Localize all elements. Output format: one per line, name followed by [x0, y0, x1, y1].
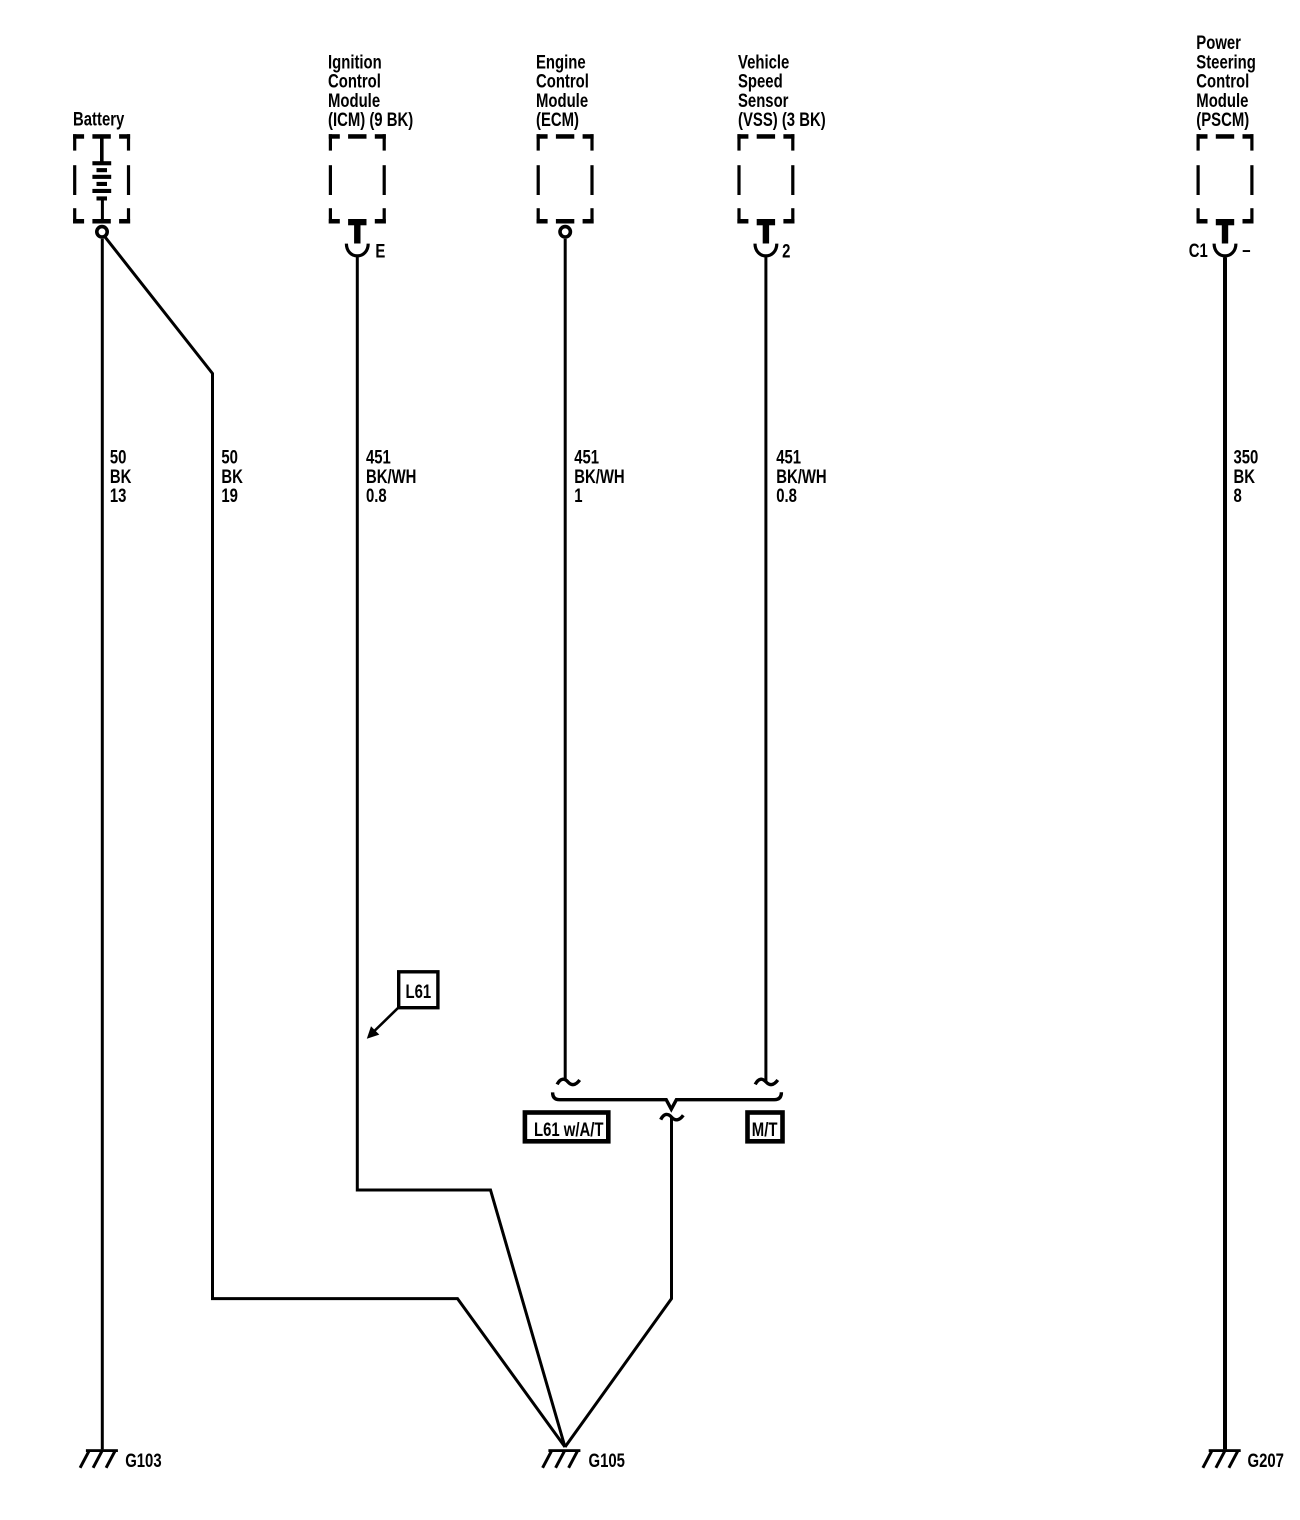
svg-text:2: 2 — [782, 239, 790, 261]
battery negative terminal ring — [97, 227, 107, 237]
svg-text:13: 13 — [110, 484, 127, 506]
wire battery to G105 (50 BK 19) — [105, 237, 565, 1447]
wire ICM E to G105 (451 BK/WH 0.8) — [357, 258, 565, 1448]
PSCM dashed box — [1197, 134, 1254, 223]
svg-text:(VSS) (3 BK): (VSS) (3 BK) — [738, 108, 826, 130]
svg-text:G105: G105 — [589, 1449, 626, 1471]
VSS terminal T-cup — [755, 219, 777, 259]
ground G103 — [80, 1449, 118, 1468]
svg-text:1: 1 — [574, 484, 583, 506]
svg-text:19: 19 — [221, 484, 238, 506]
wire ECM to splice (451 BK/WH 1) — [564, 239, 567, 1081]
wire label 50 BK 19 — [221, 446, 243, 507]
svg-text:E: E — [375, 239, 385, 261]
svg-text:(ECM): (ECM) — [536, 108, 579, 130]
wire label 350 BK 8 (PSCM) — [1234, 446, 1259, 507]
ICM dashed box — [329, 134, 386, 223]
battery cell symbol — [92, 139, 111, 220]
svg-text:(ICM) (9 BK): (ICM) (9 BK) — [328, 108, 413, 130]
svg-text:–: – — [1242, 239, 1251, 261]
wire label 451 BK/WH 0.8 (VSS) — [776, 446, 826, 507]
label Ignition Control Module (ICM) (9 BK) — [328, 50, 413, 130]
breakout symbol at splice wire top — [661, 1114, 684, 1119]
svg-text:0.8: 0.8 — [366, 484, 387, 506]
ground G207 — [1203, 1449, 1241, 1468]
breakout symbol at VSS wire end — [755, 1079, 778, 1084]
svg-text:8: 8 — [1234, 484, 1243, 506]
svg-text:Battery: Battery — [73, 107, 125, 129]
arrow from L61 box to ICM wire — [373, 1007, 399, 1032]
label Power Steering Control Module (PSCM) — [1196, 31, 1256, 130]
option callout L61 — [399, 972, 438, 1008]
battery dashed box (Battery) — [73, 134, 130, 223]
svg-text:L61 w/A/T: L61 w/A/T — [534, 1118, 604, 1140]
wire battery to G103 (50 BK 13) — [101, 239, 104, 1450]
svg-text:G103: G103 — [125, 1449, 161, 1471]
svg-text:G207: G207 — [1248, 1449, 1284, 1471]
wire label 50 BK 13 — [110, 446, 132, 507]
svg-text:M/T: M/T — [752, 1118, 778, 1140]
wire label 451 BK/WH 0.8 (ICM) — [366, 446, 416, 507]
svg-text:L61: L61 — [405, 980, 431, 1002]
option box L61 w/A/T — [525, 1113, 608, 1142]
breakout symbol at ECM wire end — [557, 1079, 580, 1084]
label Engine Control Module (ECM) — [536, 50, 589, 130]
svg-text:C1: C1 — [1189, 239, 1208, 261]
ICM terminal T-cup — [346, 219, 368, 259]
wire label 451 BK/WH 1 (ECM) — [574, 446, 624, 507]
brace joining ECM and VSS branches — [553, 1092, 782, 1109]
ground G105 — [543, 1449, 581, 1468]
wire PSCM C1 to G207 (350 BK 8) — [1223, 258, 1227, 1450]
wire splice to G105 — [565, 1117, 672, 1448]
wire VSS 2 to splice (451 BK/WH 0.8) — [764, 258, 767, 1082]
VSS dashed box — [737, 134, 794, 223]
svg-text:(PSCM): (PSCM) — [1196, 108, 1249, 130]
option box M/T — [748, 1113, 783, 1142]
ECM dashed box — [537, 134, 594, 223]
svg-text:0.8: 0.8 — [776, 484, 797, 506]
label Vehicle Speed Sensor (VSS) (3 BK) — [738, 50, 826, 130]
ECM terminal ring — [560, 227, 570, 237]
PSCM terminal T-cup — [1214, 219, 1236, 259]
